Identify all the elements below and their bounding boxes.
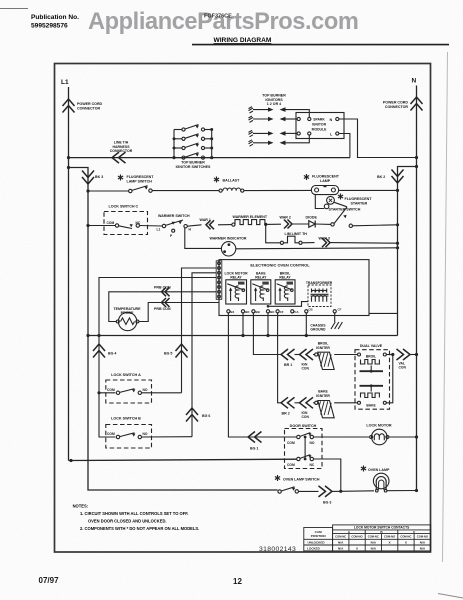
wire broil valve out — [386, 354, 393, 356]
wire transformer link — [268, 302, 308, 307]
svg-text:N/A: N/A — [420, 547, 426, 551]
svg-text:BALLAST: BALLAST — [223, 179, 241, 183]
wire riser BB terminal to broil row — [253, 313, 281, 355]
broil row: connector chevron BR 1 — [281, 349, 295, 360]
node junction — [396, 189, 399, 192]
node junction on neutral — [415, 353, 418, 356]
electronic oven control board U2 — [219, 260, 369, 316]
wire lock B NO to BG6 riser — [142, 436, 193, 438]
bake valve solenoid — [360, 385, 384, 387]
svg-text:BR 1: BR 1 — [284, 363, 292, 367]
connector chevron BG 1 door row — [248, 432, 262, 443]
svg-text:N/A: N/A — [338, 547, 344, 551]
svg-text:BB: BB — [256, 310, 260, 314]
svg-text:SPARK: SPARK — [313, 118, 325, 122]
board bottom terminals — [227, 310, 230, 313]
line t/h harness connector chevrons — [112, 152, 126, 163]
svg-text:CON: CON — [302, 367, 310, 371]
wire L1 vertical main left line — [68, 87, 70, 461]
svg-text:COM-NO: COM-NO — [417, 535, 428, 539]
wire probe lower lead — [139, 303, 219, 322]
oven lamp — [361, 466, 366, 472]
wire pin to BG4 riser — [99, 278, 216, 438]
svg-text:BG 1: BG 1 — [250, 447, 258, 451]
bake row: connector chevron BR 2 — [281, 397, 295, 408]
wire WAR3 to neutral riser — [330, 242, 398, 245]
scan edge artifact top left — [0, 8, 28, 10]
svg-text:BK 2: BK 2 — [377, 175, 385, 179]
node junction fluorescent row on BK3 line — [86, 189, 89, 192]
svg-text:COM: COM — [287, 441, 295, 445]
svg-text:FLUORESCENT: FLUORESCENT — [312, 175, 340, 179]
svg-text:RELAY: RELAY — [255, 276, 267, 280]
svg-text:DIODE: DIODE — [306, 216, 318, 220]
svg-text:WAR 3: WAR 3 — [319, 237, 330, 241]
svg-text:POWER CORD: POWER CORD — [77, 102, 103, 106]
svg-text:5995298576: 5995298576 — [31, 23, 68, 30]
wire module L to L1 bus — [339, 134, 350, 158]
wire riser CB terminal to mid bus — [305, 313, 307, 336]
page edge scan line right — [443, 52, 448, 562]
node junction lock A COM — [97, 391, 100, 394]
svg-text:PROBE: PROBE — [121, 311, 134, 315]
svg-text:FLUORESCENT: FLUORESCENT — [127, 175, 155, 179]
wire fluorescent lamp switch row — [88, 190, 129, 192]
connector chevron WAR 3 — [322, 238, 330, 247]
top burner ignitor switch bank left rail — [173, 130, 175, 158]
svg-text:UNLOCKED: UNLOCKED — [308, 541, 326, 545]
svg-text:BAKE: BAKE — [366, 403, 376, 407]
svg-text:LOCK SWITCH C: LOCK SWITCH C — [109, 205, 139, 209]
svg-text:DUAL VALVE: DUAL VALVE — [360, 344, 383, 348]
wire BK2 branch — [398, 167, 417, 336]
svg-text:BG 4: BG 4 — [108, 352, 116, 356]
node junction lock switch C row — [86, 224, 89, 227]
svg-text:IGNITOR SWITCHES: IGNITOR SWITCHES — [176, 165, 211, 169]
wire switch to ballast — [152, 190, 219, 192]
wire bottom bus — [71, 459, 297, 460]
top burner ignitor 1 spark gap — [249, 107, 310, 118]
svg-text:N/A: N/A — [420, 541, 426, 545]
svg-text:COM: COM — [107, 388, 115, 392]
wire mid horizontal bus — [88, 335, 398, 337]
svg-text:ELECTRONIC OVEN CONTROL: ELECTRONIC OVEN CONTROL — [250, 262, 310, 267]
wire lock A COM tap — [99, 392, 115, 394]
wire BK3 branch — [69, 168, 278, 491]
connector chevron IGN CON bake — [300, 397, 314, 408]
svg-text:CB: CB — [308, 308, 312, 312]
wire N vertical neutral line — [416, 86, 418, 491]
svg-text:GROUND: GROUND — [310, 328, 326, 332]
svg-text:L1: L1 — [157, 228, 161, 232]
wire to junction — [332, 490, 341, 492]
wire bake igniter to valve — [334, 402, 357, 404]
svg-text:STARTER: STARTER — [351, 201, 368, 205]
connector chevron WAR 2 — [284, 220, 292, 229]
wire to BR3 — [299, 490, 319, 492]
header rule line — [192, 44, 449, 46]
svg-text:COM: COM — [107, 432, 115, 436]
wire riser B4 terminal to door switch row — [228, 313, 296, 437]
svg-text:TRANSFORMER: TRANSFORMER — [306, 281, 333, 285]
svg-text:OVEN DOOR CLOSED AND UNLOCKED.: OVEN DOOR CLOSED AND UNLOCKED. — [88, 519, 167, 524]
spark ignitor module U1 — [296, 113, 344, 139]
svg-text:LAMP SWITCH: LAMP SWITCH — [127, 180, 153, 184]
wire pin to BG6 riser — [192, 273, 216, 437]
wire lamp to neutral riser — [339, 189, 398, 191]
scan artifact bottom right corner — [438, 594, 463, 599]
power cord connector L1 chevrons — [63, 99, 75, 113]
wire — [313, 402, 315, 404]
svg-text:COM-NC: COM-NC — [335, 535, 346, 539]
top burner ignitor 2 spark gap — [249, 116, 297, 122]
svg-text:12: 12 — [233, 577, 242, 586]
node junction valve out — [391, 353, 394, 356]
svg-text:LIM LIMIT TH: LIM LIMIT TH — [285, 232, 308, 236]
limit thermostat — [280, 241, 283, 244]
node junction bottom bus left — [69, 459, 72, 462]
wire lock motor to neutral — [389, 436, 416, 438]
node junction — [396, 242, 399, 245]
svg-text:PRB CON: PRB CON — [154, 286, 171, 290]
svg-text:COM: COM — [107, 221, 115, 225]
wire igniter to dual valve — [334, 354, 357, 356]
svg-text:COM-NO: COM-NO — [351, 535, 362, 539]
svg-text:COM-NC: COM-NC — [400, 535, 411, 539]
svg-text:1 2 OR 4: 1 2 OR 4 — [267, 102, 281, 106]
svg-text:OVEN LAMP SWITCH: OVEN LAMP SWITCH — [283, 478, 320, 482]
svg-text:BO: BO — [245, 310, 250, 314]
wire to WAR3 — [302, 242, 314, 244]
fluorescent starter — [324, 185, 327, 187]
board edge connector strip — [216, 261, 222, 300]
wire element branch down to limit thermostat — [266, 224, 281, 242]
svg-text:FGF376CE: FGF376CE — [204, 14, 232, 20]
svg-text:L: L — [330, 133, 333, 137]
svg-text:H: H — [189, 228, 192, 232]
wire L1 line end tie — [69, 460, 72, 462]
svg-text:CF: CF — [338, 308, 342, 312]
warmer element — [232, 223, 235, 226]
fluorescent lamp switch — [129, 189, 132, 192]
svg-text:LOCK SWITCH B: LOCK SWITCH B — [111, 417, 141, 421]
wire riser BO2 terminal to mid bus — [267, 313, 269, 336]
svg-text:RELAY: RELAY — [279, 276, 291, 280]
svg-text:WAR 1: WAR 1 — [200, 218, 211, 222]
svg-text:N/A: N/A — [371, 547, 377, 551]
wire warmer switch H down to indicator — [185, 228, 222, 249]
top burner ignitor switch 1 — [174, 125, 212, 132]
wire lamp row — [341, 490, 374, 493]
node junction on neutral — [415, 435, 418, 438]
svg-text:CF: CF — [280, 310, 284, 314]
svg-text:N/A: N/A — [338, 541, 344, 545]
svg-text:LOCK SWITCH A: LOCK SWITCH A — [111, 373, 141, 377]
diode D1 — [309, 221, 315, 228]
svg-text:POSITION: POSITION — [311, 534, 327, 538]
svg-text:POWER CORD: POWER CORD — [383, 101, 409, 105]
svg-text:COM-NO: COM-NO — [384, 535, 395, 539]
svg-text:P: P — [170, 234, 173, 238]
top burner ignitor switch 4 — [174, 153, 212, 160]
svg-text:CONNECTOR: CONNECTOR — [77, 107, 100, 111]
top burner ignitor switch 2 — [174, 134, 212, 141]
svg-text:LAMP: LAMP — [320, 179, 331, 183]
svg-text:LOCKED: LOCKED — [307, 547, 321, 551]
fluorescent lamp — [311, 186, 338, 195]
wire lock switch C row — [88, 225, 115, 227]
svg-text:N: N — [330, 118, 333, 122]
wire to neutral line — [410, 354, 417, 356]
svg-text:WAR 2: WAR 2 — [280, 216, 291, 220]
connector chevron BK 2 — [392, 170, 404, 184]
power cord connector N chevrons — [411, 97, 423, 111]
svg-text:NO: NO — [143, 432, 148, 436]
connector chevron VAL CON — [397, 349, 411, 360]
connector chevron WAR 1 — [206, 220, 214, 229]
svg-text:BROIL: BROIL — [366, 355, 376, 359]
svg-text:COM: COM — [287, 463, 295, 467]
svg-text:N: N — [412, 78, 417, 85]
connector chevron BG 4 — [93, 344, 105, 358]
svg-text:IGNITOR: IGNITOR — [312, 123, 327, 127]
svg-text:B4: B4 — [231, 310, 235, 314]
top burner ignitor 3 spark gap — [249, 130, 297, 136]
oven lamp switch — [275, 475, 280, 481]
svg-text:2. COMPONENTS WITH * DO NOT AP: 2. COMPONENTS WITH * DO NOT APPEAR ON AL… — [80, 526, 199, 531]
svg-text:X: X — [389, 541, 392, 545]
svg-text:X: X — [356, 547, 359, 551]
connector chevron BR 3 — [319, 486, 333, 497]
wire — [313, 354, 315, 356]
top burner ignitor switch bank right rail — [211, 130, 213, 158]
temperature probe — [118, 312, 136, 330]
node junction — [396, 246, 399, 249]
svg-text:N/A: N/A — [371, 541, 377, 545]
node junction L1 bus — [67, 156, 70, 159]
wire door NC branch to lamp row — [314, 459, 341, 491]
wire WAR1 to warmer element — [218, 224, 232, 226]
starter switch — [331, 223, 334, 226]
svg-text:COM-NC: COM-NC — [368, 535, 379, 539]
svg-text:BG 6: BG 6 — [202, 414, 210, 418]
svg-text:LOCK MOTOR: LOCK MOTOR — [366, 423, 391, 427]
top burner ignitor 4 spark gap — [249, 135, 310, 146]
svg-text:IGNITER: IGNITER — [316, 394, 330, 398]
node junctions on mid bus — [86, 334, 89, 337]
wire WAR2 to diode — [292, 223, 309, 225]
svg-text:07/97: 07/97 — [39, 576, 60, 585]
ballast — [219, 189, 222, 192]
node junction N bus — [415, 156, 418, 159]
svg-text:NO: NO — [310, 441, 315, 445]
door switch second pole — [297, 457, 300, 460]
chassis ground — [334, 313, 336, 322]
wire element to WAR2 — [266, 223, 281, 225]
svg-text:MODULE: MODULE — [312, 127, 327, 131]
svg-text:WARMER ELEMENT: WARMER ELEMENT — [233, 215, 268, 219]
wire board to neutral riser link — [369, 312, 398, 314]
svg-text:L1: L1 — [61, 79, 69, 86]
svg-text:CONNECTOR: CONNECTOR — [110, 149, 133, 153]
svg-text:NO: NO — [143, 388, 148, 392]
wire diode to starter switch — [315, 223, 330, 225]
wire riser CF terminal to bake row — [278, 313, 281, 403]
svg-text:CON: CON — [302, 415, 310, 419]
top burner ignitor switch 3 — [174, 143, 212, 150]
svg-text:BR 2: BR 2 — [282, 411, 290, 415]
svg-text:X: X — [405, 541, 408, 545]
wire valve common riser — [386, 355, 393, 403]
wire — [295, 354, 300, 356]
svg-text:1. CIRCUIT SHOWN WITH ALL CONT: 1. CIRCUIT SHOWN WITH ALL CONTROLS SET T… — [80, 511, 188, 516]
broil valve solenoid — [358, 353, 361, 356]
node junction — [396, 223, 399, 226]
connector chevron PRB CON upper — [162, 287, 170, 296]
svg-text:BK 3: BK 3 — [95, 175, 103, 179]
wire lamp to neutral end — [387, 490, 417, 492]
svg-text:Publication No.: Publication No. — [31, 14, 79, 21]
wire pin to BG5 riser — [182, 268, 217, 393]
wire probe upper lead — [109, 292, 216, 322]
svg-text:CA: CA — [294, 310, 299, 314]
connector chevron BK 3 — [82, 171, 94, 185]
svg-text:WIRING DIAGRAM: WIRING DIAGRAM — [214, 37, 272, 44]
svg-text:IGNITER: IGNITER — [316, 346, 330, 350]
node junction lamp row — [339, 490, 342, 493]
wire — [295, 402, 300, 404]
wire door switch pole link — [304, 437, 306, 459]
connector chevron IGN CON broil — [300, 349, 314, 360]
svg-text:OVEN LAMP: OVEN LAMP — [368, 468, 390, 472]
wire ballast to fluorescent lamp — [244, 189, 312, 191]
wire riser BO terminal to mid bus — [242, 313, 244, 336]
svg-text:RELAY: RELAY — [230, 276, 242, 280]
wire door NO to lock motor — [314, 436, 371, 438]
connector chevron BG 6 — [186, 408, 198, 422]
svg-text:BO: BO — [270, 310, 275, 314]
wire to neutral riser — [353, 225, 398, 226]
warmer indicator — [221, 242, 235, 256]
svg-text:PRB CON: PRB CON — [154, 307, 171, 311]
svg-text:NOTES:: NOTES: — [73, 504, 88, 509]
svg-text:318002143: 318002143 — [259, 546, 296, 553]
svg-text:CONNECTOR: CONNECTOR — [385, 105, 408, 109]
svg-text:NC: NC — [310, 463, 315, 467]
node junction neutral end — [415, 489, 418, 492]
wire module N to neutral line — [339, 119, 417, 158]
svg-text:CON: CON — [399, 366, 407, 370]
svg-text:BG 3: BG 3 — [323, 501, 331, 505]
wire lock A NO to BG5 riser — [142, 392, 182, 394]
node rail dots — [173, 137, 176, 140]
node junction BK3 tap on L1 line — [67, 166, 70, 169]
node junction BK2 tap — [415, 165, 418, 168]
svg-text:WARMER INDICATOR: WARMER INDICATOR — [210, 237, 247, 241]
connector chevron PRB CON lower — [162, 298, 170, 307]
diagram border frame — [55, 64, 431, 553]
lock motor switch contacts table — [304, 525, 431, 551]
svg-text:DOOR SWITCH: DOOR SWITCH — [290, 424, 317, 428]
connector chevron BG 5 — [176, 344, 188, 358]
wire warmer switch to WAR1 — [187, 225, 201, 226]
wire main top bus L1 — [69, 157, 351, 159]
node junction element output — [264, 223, 267, 226]
wire lock C to warmer switch — [140, 225, 163, 228]
svg-text:BG 5: BG 5 — [164, 352, 172, 356]
wire indicator to neutral riser — [236, 248, 398, 249]
svg-text:WARMER SWITCH: WARMER SWITCH — [158, 214, 190, 218]
